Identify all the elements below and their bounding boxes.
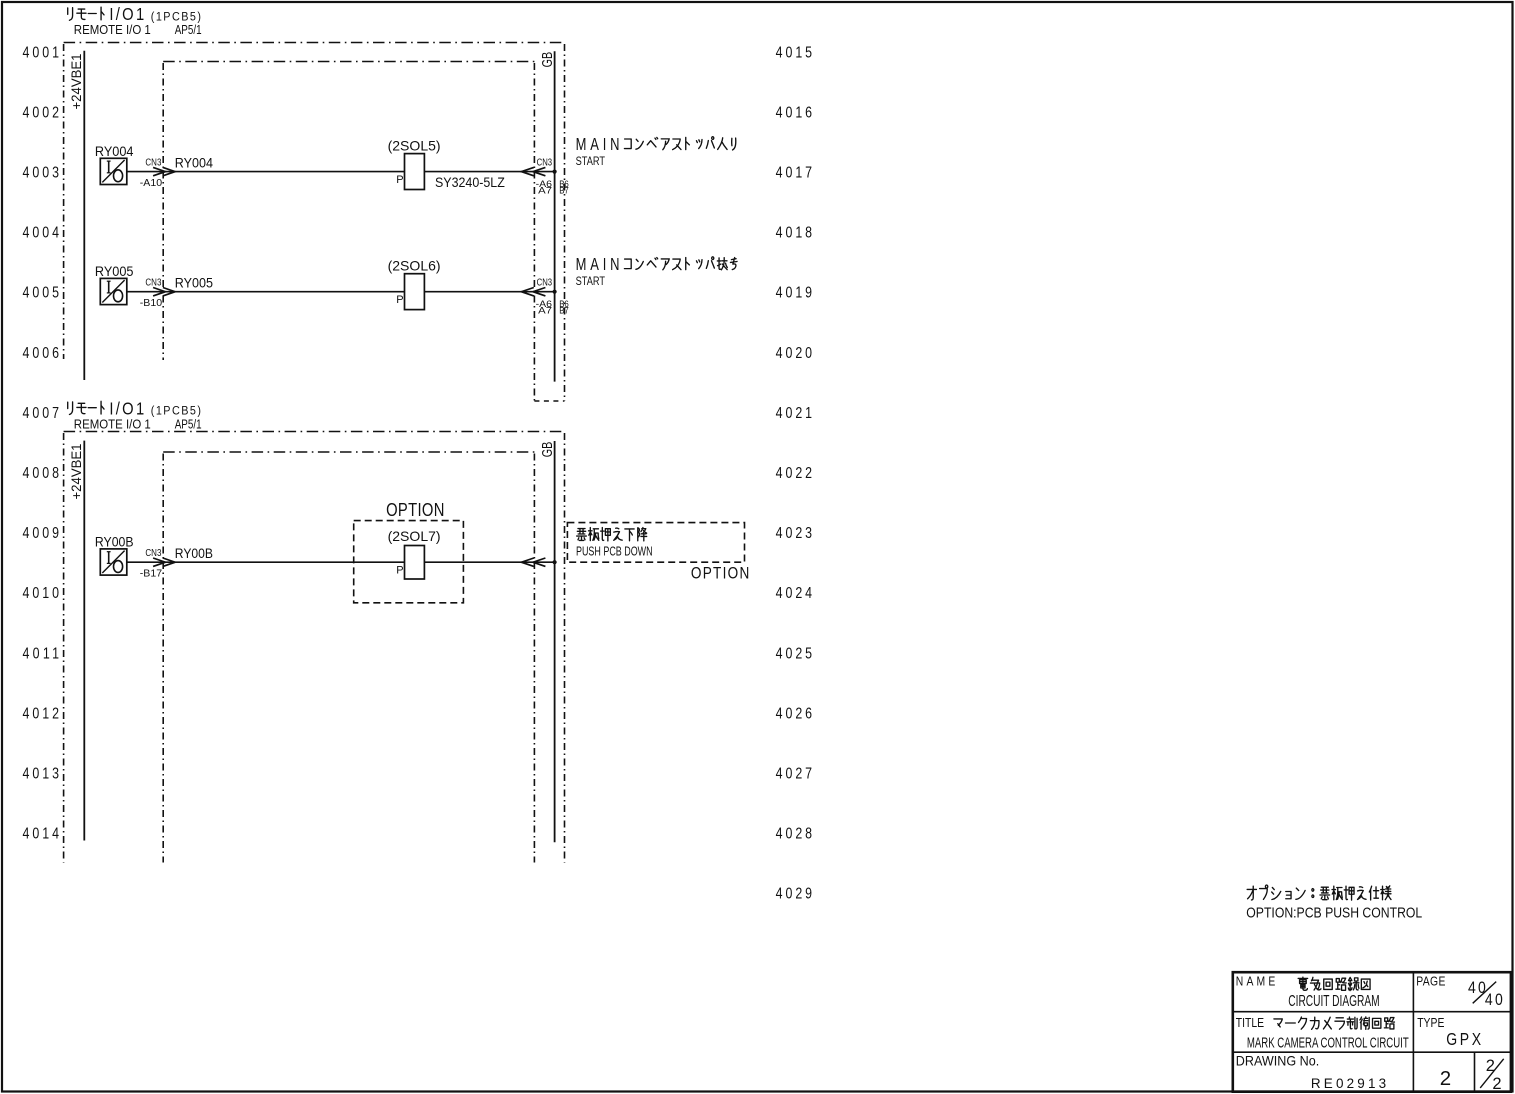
svg-text:4014: 4014 — [23, 824, 60, 842]
svg-text:RY00B: RY00B — [95, 534, 134, 550]
svg-text:40: 40 — [1485, 991, 1503, 1009]
svg-text:SY3240-5LZ: SY3240-5LZ — [435, 175, 505, 190]
svg-text:4022: 4022 — [776, 464, 813, 482]
svg-text:TYPE: TYPE — [1417, 1016, 1444, 1030]
svg-text:MAIN: MAIN — [576, 135, 620, 155]
svg-text:4007: 4007 — [23, 404, 60, 422]
svg-text:4001: 4001 — [23, 43, 60, 61]
svg-text:+24VBE1: +24VBE1 — [68, 53, 84, 109]
svg-text:START: START — [576, 274, 606, 288]
svg-text:4004: 4004 — [23, 223, 60, 241]
svg-text:4016: 4016 — [776, 103, 813, 121]
svg-text:REMOTE I/O 1: REMOTE I/O 1 — [74, 22, 151, 37]
svg-text:4027: 4027 — [776, 764, 813, 782]
svg-text:PAGE: PAGE — [1416, 975, 1445, 989]
svg-text:4012: 4012 — [23, 704, 60, 722]
svg-text:TITLE: TITLE — [1236, 1016, 1264, 1030]
svg-text:DRAWING No.: DRAWING No. — [1236, 1052, 1319, 1068]
svg-text:RY004: RY004 — [95, 143, 134, 159]
svg-text:CN3: CN3 — [145, 547, 161, 559]
svg-text:4019: 4019 — [776, 283, 813, 301]
svg-text:-A10: -A10 — [140, 177, 162, 189]
svg-text:AP5/1: AP5/1 — [175, 416, 202, 431]
svg-text:B7: B7 — [559, 305, 569, 316]
svg-text:CN3: CN3 — [537, 156, 553, 168]
svg-text:4011: 4011 — [23, 644, 60, 662]
svg-text:OPTION: OPTION — [691, 564, 749, 583]
svg-text:GPX: GPX — [1446, 1029, 1481, 1049]
svg-text:P: P — [396, 565, 403, 577]
svg-text:4020: 4020 — [776, 343, 813, 361]
svg-text:4009: 4009 — [23, 524, 60, 542]
svg-text:RY004: RY004 — [175, 155, 213, 171]
svg-text:PUSH PCB DOWN: PUSH PCB DOWN — [576, 544, 653, 559]
svg-text:MARK CAMERA CONTROL CIRCUIT: MARK CAMERA CONTROL CIRCUIT — [1247, 1035, 1409, 1052]
svg-text:RE02913: RE02913 — [1311, 1075, 1387, 1091]
svg-text:4005: 4005 — [23, 283, 60, 301]
svg-text:(2SOL6): (2SOL6) — [388, 258, 441, 274]
svg-text:A7: A7 — [538, 185, 552, 196]
svg-text:2: 2 — [1492, 1075, 1501, 1093]
svg-text:CN3: CN3 — [145, 156, 161, 168]
svg-text:4008: 4008 — [23, 464, 60, 482]
svg-text:-B10: -B10 — [140, 297, 162, 309]
svg-text:START: START — [576, 154, 606, 168]
svg-text:4029: 4029 — [776, 884, 813, 902]
svg-text:4021: 4021 — [776, 404, 813, 422]
svg-text:4017: 4017 — [776, 163, 813, 181]
svg-text:(2SOL5): (2SOL5) — [388, 137, 441, 153]
svg-text:4018: 4018 — [776, 223, 813, 241]
svg-text:4013: 4013 — [23, 764, 60, 782]
svg-text:GB: GB — [540, 52, 556, 68]
svg-text:4015: 4015 — [776, 43, 813, 61]
svg-text:-B17: -B17 — [140, 567, 162, 579]
svg-text:4023: 4023 — [776, 524, 813, 542]
svg-text:RY005: RY005 — [95, 263, 134, 279]
svg-text:REMOTE I/O 1: REMOTE I/O 1 — [74, 416, 151, 431]
svg-text:4003: 4003 — [23, 163, 60, 181]
svg-text:CIRCUIT DIAGRAM: CIRCUIT DIAGRAM — [1288, 993, 1379, 1010]
svg-text:+24VBE1: +24VBE1 — [68, 443, 84, 499]
svg-text:RY005: RY005 — [175, 275, 213, 291]
svg-text:OPTION: OPTION — [386, 500, 444, 521]
svg-text:OPTION:PCB PUSH CONTROL: OPTION:PCB PUSH CONTROL — [1246, 905, 1422, 922]
svg-text:2: 2 — [1440, 1067, 1451, 1090]
svg-text:P: P — [396, 294, 403, 306]
svg-text:4006: 4006 — [23, 343, 60, 361]
svg-text:P: P — [396, 174, 403, 186]
svg-text:NAME: NAME — [1236, 975, 1276, 989]
svg-text:4028: 4028 — [776, 824, 813, 842]
svg-text:B7: B7 — [559, 185, 569, 196]
svg-text:A7: A7 — [538, 305, 552, 316]
svg-text:AP5/1: AP5/1 — [175, 22, 202, 37]
svg-text:MAIN: MAIN — [576, 255, 620, 275]
svg-text:GB: GB — [540, 442, 556, 458]
svg-text:(2SOL7): (2SOL7) — [388, 528, 441, 544]
svg-text:4002: 4002 — [23, 103, 60, 121]
svg-text:CN3: CN3 — [145, 277, 161, 289]
svg-text:4024: 4024 — [776, 584, 813, 602]
svg-text:4025: 4025 — [776, 644, 813, 662]
svg-text:RY00B: RY00B — [175, 545, 213, 561]
svg-text:4026: 4026 — [776, 704, 813, 722]
svg-text:4010: 4010 — [23, 584, 60, 602]
svg-text:CN3: CN3 — [537, 277, 553, 289]
